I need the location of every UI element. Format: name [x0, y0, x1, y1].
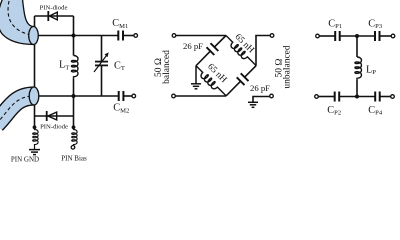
inductor 65nH (top-right arm): [223, 34, 258, 69]
wire bottom branch: [35, 115, 74, 117]
wire bottom rail right: [381, 96, 391, 98]
wire center rail lower: [73, 79, 75, 127]
capacitor CP2: [335, 92, 340, 102]
capacitor 26pF (top-left arm): [207, 43, 219, 55]
wire top rail right: [380, 35, 391, 37]
wire top rail mid: [340, 35, 375, 37]
inductor 65nH (bottom-left arm): [193, 64, 228, 99]
ground (unbalanced bottom): [248, 102, 258, 107]
wire unbalanced top: [256, 36, 270, 66]
terminal bottom-right: [391, 95, 395, 99]
svg-text:PIN GND: PIN GND: [11, 156, 39, 164]
wire LP lower lead: [356, 80, 358, 97]
junction node (right circuit top): [355, 34, 359, 38]
PIN-diode D2 (bottom): [47, 111, 57, 121]
terminal (top right of left circuit): [134, 34, 138, 38]
inductor PIN Bias coil: [72, 127, 77, 145]
wire CT lower lead: [101, 66, 103, 97]
junction node (right circuit bottom): [355, 95, 359, 99]
terminal unbalanced bottom (grounded): [270, 94, 274, 98]
capacitor CP4: [375, 92, 380, 102]
svg-text:PIN-diode: PIN-diode: [40, 123, 68, 130]
terminal top-left: [316, 34, 320, 38]
wire CT upper lead: [101, 36, 103, 62]
svg-text:PIN-diode: PIN-diode: [40, 5, 68, 12]
svg-text:PIN Bias: PIN Bias: [61, 155, 87, 163]
terminal balanced bottom: [172, 94, 176, 98]
wire top rail left: [320, 35, 335, 37]
wire top main: [35, 35, 118, 37]
capacitor CM2: [119, 91, 124, 101]
wire bottom to terminal: [124, 95, 132, 97]
ground (PIN GND): [29, 150, 40, 155]
wire top branch: [35, 15, 74, 17]
wire balanced bottom: [176, 95, 227, 97]
node dot (PIN GND coil top): [33, 125, 37, 129]
terminal (bottom right of left circuit): [132, 94, 136, 98]
variable capacitor CT: [95, 62, 108, 66]
capacitor 26pF (bottom-right arm): [237, 73, 249, 85]
wire balanced top: [176, 35, 226, 37]
wire bottom rail mid: [340, 96, 376, 98]
wire center rail: [73, 16, 75, 56]
coax tube (bottom): [0, 87, 39, 124]
coax tube (top): [0, 0, 38, 45]
capacitor CP3: [375, 31, 380, 41]
svg-text:balanced: balanced: [162, 50, 172, 84]
wire lattice: cap arm top-left: [196, 36, 226, 66]
wire LP upper lead: [356, 36, 358, 57]
svg-text:26 pF: 26 pF: [250, 83, 270, 93]
wire lattice: cap arm bottom-right: [226, 66, 256, 96]
terminal (PIN Bias): [71, 146, 75, 150]
ground (left node): [191, 66, 201, 89]
PIN-diode D1 (top): [48, 11, 57, 21]
terminal balanced top: [172, 34, 176, 38]
node dot (PIN Bias coil top): [72, 125, 76, 129]
wire unbalanced bottom to ground: [253, 97, 270, 103]
wire top to terminal: [124, 35, 135, 37]
inductor PIN GND coil: [33, 127, 38, 149]
capacitor CM1: [118, 31, 123, 41]
wire bottom main: [35, 95, 119, 97]
capacitor CP1: [335, 31, 340, 41]
inductor LT coil: [71, 56, 78, 80]
junction node (bottom): [72, 94, 76, 98]
wire bottom rail left: [319, 96, 335, 98]
junction node (top): [72, 34, 76, 38]
terminal bottom-left: [315, 95, 319, 99]
terminal unbalanced top: [270, 34, 274, 38]
terminal top-right: [391, 34, 395, 38]
wire left rail: [34, 16, 36, 127]
inductor LP coil: [355, 57, 362, 80]
svg-text:26 pF: 26 pF: [183, 41, 203, 51]
svg-text:unbalanced: unbalanced: [282, 45, 292, 89]
